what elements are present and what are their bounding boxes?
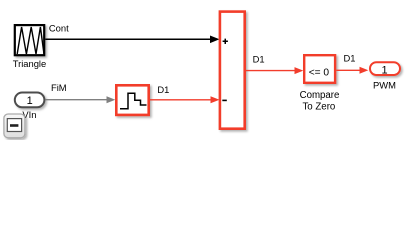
source block Triangle (13, 25, 47, 69)
svg-text:1: 1 (381, 65, 387, 77)
compare block Compare To Zero (300, 55, 340, 112)
wire Triangle to Sum plus input (45, 36, 219, 44)
svg-text:D1: D1 (253, 54, 265, 65)
svg-text:Cont: Cont (49, 22, 69, 33)
badge minus icon (4, 114, 25, 138)
outport 1 PWM (370, 62, 400, 90)
pulse block D1 (116, 85, 148, 115)
wire Sum to Compare (246, 67, 303, 74)
svg-text:Triangle: Triangle (13, 58, 47, 69)
svg-text:<= 0: <= 0 (309, 68, 330, 79)
svg-text:1: 1 (27, 95, 33, 107)
wire pulse to Sum minus input (150, 96, 220, 103)
inport 1 VIn (15, 93, 45, 121)
svg-text:Compare: Compare (300, 90, 340, 101)
svg-text:D1: D1 (344, 52, 356, 63)
svg-text:PWM: PWM (373, 80, 396, 91)
wire Compare to PWM outport (336, 67, 368, 74)
wire VIn to pulse block (45, 96, 115, 103)
svg-text:FiM: FiM (51, 82, 67, 93)
sum block (220, 12, 245, 129)
svg-text:To Zero: To Zero (302, 101, 335, 112)
svg-text:D1: D1 (157, 84, 169, 95)
